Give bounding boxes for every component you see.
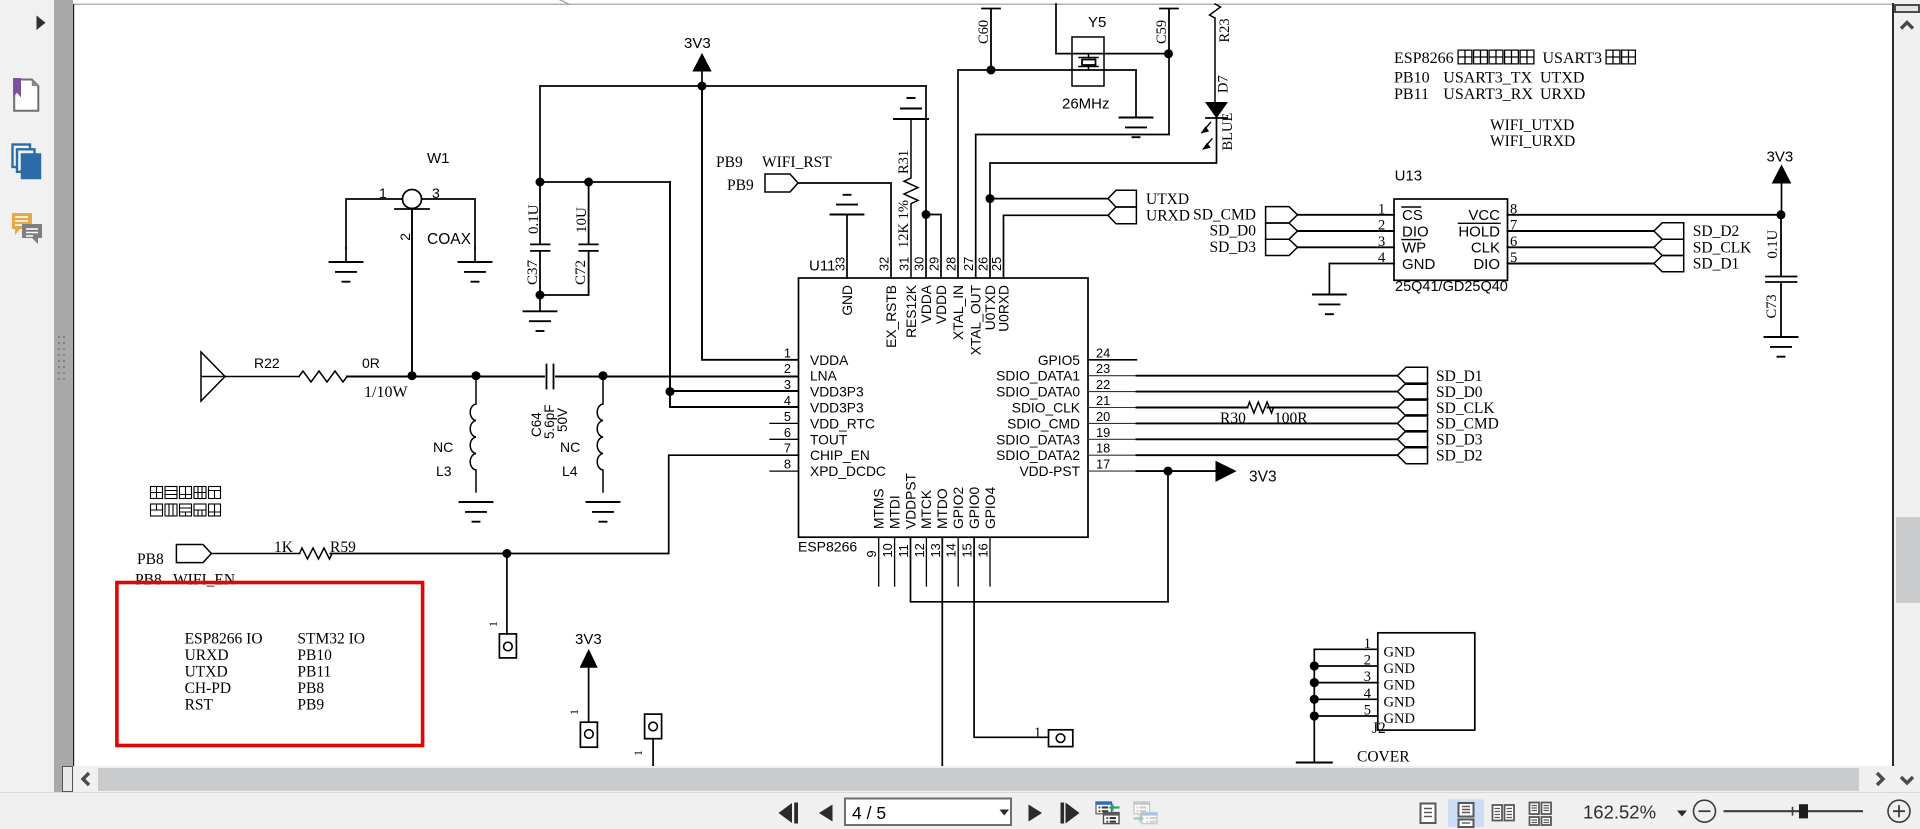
U11 NC stub pin8 [770, 470, 799, 472]
ground at W1 pin1 [345, 248, 347, 262]
page top edge [74, 3, 1893, 5]
ground under C73 [1765, 337, 1798, 357]
svg-text:PB9: PB9 [297, 696, 324, 713]
junction test pad 1 tap [502, 549, 511, 558]
svg-text:VDDD: VDDD [934, 285, 949, 324]
svg-text:0R: 0R [362, 355, 380, 371]
svg-text:COVER: COVER [1357, 749, 1410, 766]
svg-text:29: 29 [927, 257, 942, 271]
horizontal scrollbar [73, 766, 1894, 792]
svg-text:URXD: URXD [1540, 86, 1585, 103]
svg-text:SD_D3: SD_D3 [1436, 432, 1483, 449]
net flag SD_D1 right [1654, 256, 1684, 272]
svg-text:STM32 IO: STM32 IO [297, 631, 365, 648]
sidebar icons [0, 0, 54, 260]
svg-text:LNA: LNA [810, 369, 838, 384]
svg-text:32: 32 [877, 257, 892, 271]
svg-text:MTMS: MTMS [872, 488, 887, 529]
bookmark page icon [13, 78, 38, 111]
connector W1 COAX [395, 190, 429, 210]
svg-text:R22: R22 [254, 355, 280, 371]
svg-text:SDIO_DATA0: SDIO_DATA0 [996, 385, 1080, 400]
svg-text:5: 5 [784, 409, 791, 424]
wire J2 pin1 [1314, 648, 1378, 650]
svg-text:UTXD: UTXD [1540, 70, 1584, 87]
svg-text:9: 9 [864, 550, 879, 557]
junction 3V3 arrow [698, 82, 707, 91]
wire 3V3 to test pad 2 [588, 667, 590, 722]
next view button disabled [1133, 801, 1157, 823]
net flag SD_D1 [1398, 367, 1428, 384]
svg-text:C73: C73 [1764, 294, 1780, 318]
wire VDD-PST pin17 [1088, 470, 1137, 472]
zoom slider [1724, 810, 1864, 812]
U11 bottom stub pin14 [957, 537, 959, 586]
ground under L4 [587, 502, 620, 522]
net flag SD_D2 [1398, 447, 1428, 464]
U11 right pin numbers [1096, 345, 1110, 471]
svg-text:GND: GND [1384, 678, 1415, 694]
wire C59 to XTAL_OUT pin27 [976, 54, 1169, 278]
test pad TP4 [1049, 730, 1073, 747]
wire W1 pin1 to ground [346, 199, 402, 248]
svg-text:USART3_RX: USART3_RX [1443, 86, 1533, 103]
junction L3 tap [472, 371, 481, 380]
ground under L3 [460, 502, 493, 522]
svg-text:33: 33 [833, 257, 848, 271]
text ESP8266 IO table [185, 631, 365, 714]
svg-text:USART3: USART3 [1543, 50, 1603, 67]
svg-text:PB8 WIFI_EN: PB8 WIFI_EN [135, 572, 235, 589]
wire VDD-PST down to pin11 net [1167, 471, 1169, 602]
power symbol 3V3 right arrow [1216, 462, 1236, 482]
resistor R23 [1210, 4, 1221, 103]
svg-text:GPIO4: GPIO4 [983, 487, 998, 529]
svg-text:CLK: CLK [1471, 240, 1500, 257]
svg-text:SDIO_CLK: SDIO_CLK [1012, 401, 1081, 416]
svg-text:VDDA: VDDA [919, 284, 934, 323]
svg-text:30: 30 [912, 257, 927, 271]
svg-text:MTDO: MTDO [935, 488, 950, 529]
wire R59 to CHIP_EN pin7 [330, 455, 798, 553]
svg-text:12K 1%: 12K 1% [896, 200, 912, 248]
junction VDD3P3 pin3 [666, 387, 675, 396]
junction C60 [987, 66, 996, 75]
svg-text:3: 3 [784, 377, 791, 392]
wire J2 pin2 [1314, 665, 1378, 667]
net flag SD_D2 right [1654, 223, 1684, 239]
svg-text:PB8: PB8 [297, 680, 324, 697]
comments icon [12, 213, 42, 244]
net flag UTXD [1108, 190, 1136, 207]
svg-text:1: 1 [1034, 725, 1041, 741]
wire 3V3 rail [540, 85, 926, 87]
resistor R22 0R 1/10W [225, 376, 299, 378]
svg-text:SDIO_DATA2: SDIO_DATA2 [996, 448, 1080, 463]
net flag SD_D3 [1398, 431, 1428, 448]
U11 left pin names [810, 353, 886, 479]
net flag SD_CMD to U13 [1266, 207, 1298, 223]
junction J2 pin3 [1310, 678, 1319, 687]
svg-text:1: 1 [486, 621, 500, 627]
U13 active-low overlines [1402, 207, 1500, 240]
capacitor C72 10U [540, 182, 598, 295]
svg-text:VDD3P3: VDD3P3 [810, 385, 864, 400]
wire J2 pin5 [1314, 715, 1378, 717]
antenna symbol [201, 352, 225, 401]
facing layout icon [1493, 805, 1515, 821]
wire branch to C72 and VDD3P3 [540, 181, 670, 183]
svg-text:CS: CS [1402, 207, 1423, 224]
continuous layout icon selected [1448, 799, 1484, 827]
ground under J2 [1297, 762, 1332, 764]
wire U0RXD to URXD flag [1004, 215, 1109, 278]
page number box [845, 799, 1011, 826]
svg-text:SD_D0: SD_D0 [1436, 384, 1483, 401]
wire U13 CLK pin6 to SD_CLK flag [1508, 246, 1654, 248]
wire WIFI_RST to EX_RSTB pin32 [798, 183, 891, 278]
capacitor C59 [1160, 9, 1178, 54]
test pad TP3 [645, 714, 662, 739]
zoom out button [1694, 800, 1716, 822]
net flag SD_CLK right [1654, 239, 1684, 255]
U11 left pin numbers [784, 345, 791, 471]
svg-text:PB9: PB9 [716, 154, 743, 171]
single page layout icon [1421, 804, 1436, 824]
wire SDIO_DATA3 pin19 to SD_D3 flag [1088, 438, 1137, 440]
U11 top pin numbers [833, 257, 1005, 271]
wire SDIO_CLK pin21 to resistor R30 [1088, 407, 1137, 409]
next page button [1029, 805, 1043, 822]
svg-text:0.1U: 0.1U [526, 204, 542, 234]
wire R30 to SD_CLK flag [1268, 407, 1398, 409]
previous page button [819, 805, 833, 822]
svg-text:XTAL_OUT: XTAL_OUT [969, 284, 984, 355]
wire VDD3P3 feed [670, 182, 798, 407]
sidebar splitter bar [54, 0, 73, 766]
U11 bottom pin numbers [864, 543, 990, 557]
svg-text:U0RXD: U0RXD [996, 285, 1011, 332]
svg-text:GND: GND [1384, 711, 1415, 727]
left sidebar panel [0, 0, 54, 829]
svg-text:28: 28 [944, 257, 959, 271]
svg-text:GPIO5: GPIO5 [1038, 353, 1080, 368]
capacitor C64 5.6pF 50V [547, 365, 554, 389]
svg-text:GND: GND [1384, 644, 1415, 660]
svg-text:DIO: DIO [1473, 256, 1500, 273]
net flag SD_CMD [1398, 415, 1428, 432]
svg-text:SD_D0: SD_D0 [1209, 223, 1256, 240]
svg-text:XPD_DCDC: XPD_DCDC [810, 464, 886, 479]
wire SD_CMD to CS pin1 [1298, 214, 1395, 216]
svg-text:VDDPST: VDDPST [903, 472, 918, 529]
wire U13 HOLD pin7 to SD_D2 flag [1508, 230, 1654, 232]
svg-text:23: 23 [1096, 361, 1110, 376]
svg-text:D7: D7 [1216, 75, 1232, 93]
U11 bottom stub pin9 [878, 537, 880, 586]
svg-text:2: 2 [784, 361, 791, 376]
svg-text:WIFI_UTXD: WIFI_UTXD [1490, 117, 1574, 134]
svg-text:VDD3P3: VDD3P3 [810, 401, 864, 416]
wire 3V3 to VDDA VDDD pins [926, 86, 941, 278]
svg-text:31: 31 [897, 257, 912, 271]
annotation red box [117, 583, 423, 746]
test pad TP2 [580, 722, 597, 747]
svg-text:NC: NC [560, 439, 580, 455]
svg-text:2: 2 [397, 233, 413, 241]
svg-text:C60: C60 [976, 20, 992, 44]
wire MTDO pin13 down [941, 537, 943, 766]
svg-text:W1: W1 [427, 150, 450, 167]
svg-text:URXD: URXD [1146, 208, 1190, 225]
svg-text:PB11: PB11 [297, 663, 331, 680]
net flag SD_D0 [1398, 383, 1428, 400]
svg-text:GND: GND [1384, 694, 1415, 710]
svg-text:MTCK: MTCK [919, 489, 934, 529]
collapse arrow [37, 16, 46, 31]
svg-text:GPIO2: GPIO2 [951, 487, 966, 529]
svg-text:VDD_RTC: VDD_RTC [810, 416, 875, 431]
J2 pin numbers [1364, 636, 1372, 719]
svg-text:25: 25 [989, 257, 1004, 271]
svg-text:R31: R31 [896, 150, 912, 174]
svg-text:6: 6 [784, 425, 791, 440]
bottom toolbar [0, 792, 1920, 829]
junction J2 pin5 [1310, 711, 1319, 720]
svg-text:14: 14 [944, 543, 959, 557]
wire VDDPST pin11 to VDD-PST net [911, 537, 1169, 602]
svg-text:NC: NC [433, 439, 453, 455]
svg-text:GND: GND [1402, 256, 1436, 273]
svg-text:1: 1 [567, 709, 581, 715]
svg-text:16: 16 [976, 543, 991, 557]
wire SD_D3 to WP pin3 [1298, 246, 1395, 248]
svg-text:CH-PD: CH-PD [185, 680, 232, 697]
svg-text:VDDA: VDDA [810, 353, 849, 368]
junction VDD-PST [1164, 467, 1173, 476]
wire tap down to test pad [506, 554, 508, 634]
wire J2 ground bus [1313, 649, 1315, 762]
svg-text:3V3: 3V3 [1767, 149, 1794, 166]
wire W1 pin2 down to RF line [411, 209, 413, 376]
svg-text:XTAL_IN: XTAL_IN [951, 285, 966, 340]
svg-text:PB9: PB9 [727, 177, 754, 194]
svg-text:WP: WP [1402, 240, 1426, 257]
IC U11 ESP8266 body [799, 278, 1089, 537]
ground under C37 [539, 295, 541, 311]
resistor R31 12K 1% [904, 119, 918, 278]
svg-text:SDIO_DATA3: SDIO_DATA3 [996, 432, 1080, 447]
junction C37 top [536, 178, 545, 187]
svg-text:VCC: VCC [1468, 207, 1500, 224]
svg-text:50V: 50V [555, 408, 570, 432]
text chip enable note [151, 487, 221, 517]
svg-text:SD_D2: SD_D2 [1693, 223, 1740, 240]
svg-text:25Q41/GD25Q40: 25Q41/GD25Q40 [1395, 279, 1508, 295]
svg-text:13: 13 [928, 543, 943, 557]
svg-text:SD_CLK: SD_CLK [1693, 239, 1752, 256]
svg-text:100R: 100R [1274, 410, 1308, 427]
layers icon [13, 145, 41, 179]
svg-text:SD_CMD: SD_CMD [1436, 416, 1499, 433]
wire D7 cathode to U0TXD [990, 118, 1217, 278]
junction J2 pin4 [1310, 695, 1319, 704]
svg-text:C72: C72 [573, 260, 589, 285]
svg-text:26MHz: 26MHz [1062, 96, 1110, 113]
svg-text:1: 1 [784, 345, 791, 360]
svg-text:21: 21 [1096, 393, 1110, 408]
svg-text:22: 22 [1096, 377, 1110, 392]
wire below test pad TP3 [652, 739, 654, 766]
inductor L4 NC [597, 376, 603, 492]
wire SDIO_DATA0 pin22 to SD_D0 flag [1088, 391, 1137, 393]
svg-text:C37: C37 [525, 259, 541, 285]
inductor L3 NC [470, 376, 476, 492]
U11 right pin names [996, 353, 1081, 479]
net flag SD_D3 to U13 [1266, 239, 1298, 255]
net flag SD_D0 to U13 [1266, 223, 1298, 239]
svg-text:SD_D1: SD_D1 [1693, 256, 1740, 273]
svg-text:10U: 10U [574, 207, 590, 233]
svg-text:SD_D2: SD_D2 [1436, 448, 1483, 465]
svg-text:R30: R30 [1220, 410, 1246, 427]
resistor R30 100R [1248, 402, 1274, 413]
svg-text:UTXD: UTXD [185, 663, 228, 680]
ground at U13 pin4 [1313, 295, 1346, 315]
wire U0TXD to UTXD flag [990, 198, 1108, 200]
wire C64 to LNA pin2 [556, 376, 798, 378]
wire SDIO_DATA2 pin18 to SD_D2 flag [1088, 454, 1137, 456]
svg-text:TOUT: TOUT [810, 432, 848, 447]
svg-text:C59: C59 [1154, 20, 1170, 44]
junction W1 pin2 [408, 371, 417, 380]
svg-text:18: 18 [1096, 441, 1110, 456]
svg-text:3V3: 3V3 [684, 35, 711, 52]
svg-text:WIFI_RST: WIFI_RST [762, 154, 832, 171]
svg-text:Y5: Y5 [1088, 14, 1106, 31]
wire U13 GND pin4 [1329, 264, 1394, 295]
U11 bottom stub pin12 [925, 537, 927, 586]
junction C37 C72 bottom [536, 291, 545, 300]
junction C59 [1164, 49, 1173, 58]
svg-text:UTXD: UTXD [1146, 191, 1189, 208]
svg-text:ESP8266 IO: ESP8266 IO [185, 631, 263, 648]
wire SDIO_DATA1 pin23 to SD_D1 flag [1088, 375, 1137, 377]
svg-text:PB11: PB11 [1394, 86, 1429, 103]
svg-text:10: 10 [880, 543, 895, 557]
wire crystal bottom net to XTAL_IN pin28 [958, 70, 1136, 278]
svg-text:PB8: PB8 [137, 551, 164, 568]
test pad TP1 [499, 634, 516, 658]
crystal Y5 26MHz [1072, 37, 1104, 86]
wire W1 pin3 to ground [422, 199, 475, 248]
U11 bottom pin names [872, 472, 998, 529]
capacitor C73 0.1U [1766, 215, 1797, 337]
svg-text:U13: U13 [1395, 167, 1423, 184]
first page button [779, 803, 793, 823]
svg-text:PB10: PB10 [1394, 70, 1430, 87]
svg-text:GND: GND [840, 285, 855, 316]
svg-text:U11: U11 [809, 258, 835, 275]
wire rail down to C37 branch [539, 86, 541, 182]
wire RF line to C64 [347, 376, 544, 378]
svg-text:GPIO0: GPIO0 [967, 487, 982, 529]
svg-text:PB10: PB10 [297, 647, 332, 664]
zoom in button [1888, 800, 1910, 822]
svg-text:EX_RSTB: EX_RSTB [884, 285, 899, 348]
svg-text:8: 8 [784, 457, 791, 472]
svg-text:11: 11 [896, 544, 911, 557]
svg-text:HOLD: HOLD [1458, 223, 1500, 240]
svg-text:SD_CLK: SD_CLK [1436, 400, 1495, 417]
svg-text:1: 1 [631, 750, 645, 756]
svg-text:15: 15 [960, 543, 975, 557]
splitter handle dots [54, 330, 73, 390]
svg-text:RST: RST [185, 696, 214, 713]
svg-text:17: 17 [1096, 457, 1110, 472]
svg-text:24: 24 [1096, 345, 1110, 360]
svg-text:12: 12 [912, 543, 927, 557]
text PB10 USART3_TX UTXD [1394, 70, 1584, 87]
last page button [1061, 803, 1065, 824]
text PB11 USART3_RX URXD [1394, 86, 1585, 103]
svg-text:DIO: DIO [1402, 223, 1429, 240]
svg-text:URXD: URXD [185, 647, 229, 664]
wire J2 pin4 [1314, 698, 1378, 700]
ground above R31 [894, 98, 928, 119]
wire GPIO5 pin24 stub [1088, 359, 1136, 361]
page left border [72, 4, 75, 766]
svg-text:19: 19 [1096, 425, 1110, 440]
junction VDDA VDDD [922, 210, 931, 219]
capacitor C60 [982, 9, 1000, 71]
U11 NC stub pin5 [770, 422, 799, 424]
svg-text:SD_CMD: SD_CMD [1193, 206, 1256, 223]
wire SDIO_CMD pin20 to SD_CMD flag [1088, 422, 1137, 424]
svg-text:SD_D1: SD_D1 [1436, 368, 1483, 385]
svg-text:RES12K: RES12K [904, 284, 919, 338]
svg-text:162.52%: 162.52% [1583, 802, 1656, 823]
ground at W1 pin3 [474, 248, 476, 262]
wire U13 VCC pin8 to 3V3 [1508, 214, 1782, 216]
junction C72 top [584, 178, 593, 187]
svg-text:4 / 5: 4 / 5 [852, 803, 886, 823]
connector J2 COVER body [1378, 633, 1475, 730]
U11 bottom stub pin16 [989, 537, 991, 586]
svg-text:3V3: 3V3 [1249, 469, 1277, 486]
vertical scrollbar [1894, 0, 1920, 792]
wire SD_D0 to DIO pin2 [1298, 230, 1395, 232]
svg-text:1/10W: 1/10W [364, 384, 408, 401]
wire GPIO0 pin15 to test pad [974, 537, 1048, 737]
text ESP8266 usart3 note line1 [1394, 50, 1635, 67]
U11 bottom stub pin10 [894, 537, 896, 586]
wire J2 pin3 [1314, 682, 1378, 684]
svg-text:SDIO_DATA1: SDIO_DATA1 [996, 369, 1080, 384]
resistor R59 1K [211, 553, 299, 555]
svg-text:1K: 1K [274, 539, 294, 556]
U11 NC stub pin6 [770, 438, 799, 440]
wire crystal top net [1056, 4, 1168, 54]
wire VDDA pin1 feed [702, 86, 798, 360]
previous view button [1095, 801, 1119, 823]
ground at crystal case [1135, 70, 1137, 118]
page right border [1892, 3, 1894, 766]
junction J2 pin2 [1310, 661, 1319, 670]
junction 3V3 C73 [1777, 210, 1786, 219]
svg-text:20: 20 [1096, 409, 1110, 424]
svg-text:R23: R23 [1217, 18, 1233, 42]
